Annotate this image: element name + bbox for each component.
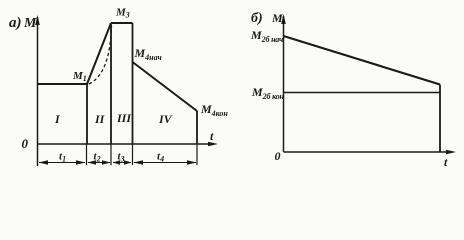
diagram a: dashed starting curve	[89, 26, 112, 84]
diagram b: t axis arrowhead	[446, 150, 456, 155]
diagram a: dimension arrow t4	[134, 160, 197, 164]
diagram a: M axis (vertical)	[37, 17, 39, 166]
svg-text:II: II	[94, 112, 106, 126]
diagram b: horizontal line at M2b kon level	[284, 92, 440, 94]
diagram b: M axis arrowhead	[281, 14, 286, 24]
svg-text:M: M	[23, 16, 37, 31]
diagram a: plateau M1 segment	[38, 83, 88, 85]
diagram a: tick below axis at t4 right end	[196, 144, 198, 165]
diagram a: tick below axis at t3 right end	[132, 144, 134, 165]
diagram a: right edge of region III	[132, 23, 134, 144]
diagram a: top plateau M3	[111, 22, 133, 24]
svg-text:а): а)	[9, 15, 22, 31]
diagram a: t axis arrowhead	[208, 142, 218, 147]
diagram a: tick below axis at t2 right end	[110, 144, 112, 165]
diagram a: right edge of region IV	[196, 111, 198, 144]
svg-text:б): б)	[251, 11, 263, 26]
diagram a: tick below axis at t1 right end	[86, 144, 88, 165]
diagram a: dimension arrow t3	[113, 160, 132, 164]
diagram b: right vertical drop	[439, 85, 441, 153]
diagram a: t axis (horizontal)	[38, 143, 214, 145]
svg-text:0: 0	[22, 136, 29, 151]
diagram a: boundary I/II vertical	[86, 84, 88, 144]
diagram a: declining segment M4nach to M4kon	[133, 62, 198, 111]
svg-text:M: M	[271, 11, 283, 25]
diagram a: dimension arrow t2	[88, 160, 111, 164]
diagram a: M axis arrowhead	[35, 15, 40, 25]
diagram b: declining segment M2b nach to M2b kon	[284, 36, 441, 85]
svg-text:0: 0	[275, 149, 281, 163]
diagram a: left edge of region III	[110, 23, 112, 144]
diagram a: rising segment M1 to M3	[87, 23, 111, 84]
svg-text:III: III	[116, 111, 132, 125]
svg-text:IV: IV	[158, 112, 173, 126]
diagram b: t axis (horizontal)	[284, 151, 452, 153]
diagram a: dimension arrow t1	[39, 160, 86, 164]
diagram b: M axis (vertical)	[283, 16, 285, 152]
